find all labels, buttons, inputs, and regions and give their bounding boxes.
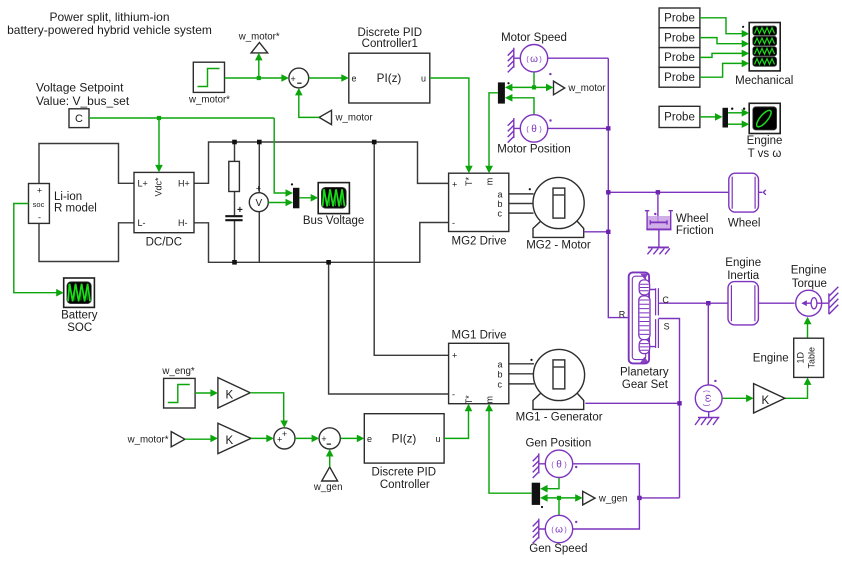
clamp motor speed (508, 48, 524, 73)
MG1 generator icon (530, 349, 584, 409)
svg-text:MG2 Drive: MG2 Drive (452, 235, 507, 247)
svg-text:m: m (485, 178, 495, 186)
PID block PI(z) Controller1 (349, 53, 430, 103)
svg-text:H-: H- (178, 218, 188, 228)
clamp gen speed (533, 519, 549, 544)
wire from-tag w_motor to sum1 (299, 95, 319, 118)
svg-text:MG1 - Generator: MG1 - Generator (516, 411, 603, 423)
wire motor mux to MG2 m (489, 93, 498, 167)
svg-text:Engine: Engine (725, 257, 761, 269)
torque source Engine Torque (796, 287, 839, 316)
svg-text:Voltage Setpoint: Voltage Setpoint (36, 80, 124, 94)
svg-text:ω: ω (702, 394, 713, 402)
junction HV+ bus / voltmeter branch (257, 140, 262, 145)
sum1 top (w_motor* - w_motor) (289, 68, 309, 88)
junction S shaft / MG1 base (677, 401, 681, 405)
svg-text:K: K (762, 395, 770, 407)
svg-text:R: R (619, 310, 626, 320)
svg-text:Value: V_bus_set: Value: V_bus_set (36, 94, 130, 108)
svg-text:K: K (226, 389, 234, 401)
junction HV+ bus / MG1 positive branch (372, 140, 377, 145)
wire planetary S down (658, 319, 679, 498)
svg-text:Controller1: Controller1 (362, 38, 418, 50)
svg-text:MG1 Drive: MG1 Drive (452, 329, 507, 341)
svg-text:SOC: SOC (67, 322, 92, 334)
probes 1-4 (659, 8, 700, 87)
svg-text:Table: Table (807, 347, 817, 369)
svg-text:-: - (452, 389, 455, 399)
wire PI2 u to MG1 T* (444, 411, 468, 439)
wire voltmeter branch (258, 142, 260, 262)
port dot demux out 2 (743, 108, 745, 110)
svg-text:Discrete PID: Discrete PID (372, 467, 437, 479)
scope Battery SOC (64, 278, 95, 307)
wire resistor-capacitor branch (234, 142, 236, 262)
svg-text:Probe: Probe (664, 112, 695, 124)
wire battery soc to scope (14, 204, 57, 293)
wire K2 to sum2 (251, 437, 268, 439)
svg-text:Battery: Battery (61, 309, 98, 321)
svg-text:b: b (498, 369, 503, 379)
svg-text:+: + (237, 205, 243, 216)
engine inertia block (728, 282, 758, 325)
svg-text:Li-ion: Li-ion (54, 191, 82, 203)
svg-text:C: C (662, 295, 669, 305)
svg-text:w_gen: w_gen (313, 482, 343, 493)
svg-text:Probe: Probe (664, 32, 695, 44)
wire 1D table to torque source (807, 324, 809, 339)
clamp motor position (508, 118, 524, 143)
svg-text:+: + (37, 186, 42, 196)
wire engine speed sensor to K3 (723, 397, 748, 399)
svg-text:+: + (277, 434, 282, 444)
planetary gear set (629, 272, 659, 363)
resistor R (229, 161, 240, 191)
port dot mechanical scope input (742, 26, 744, 28)
svg-text:-: - (38, 213, 41, 223)
constant C block (69, 109, 89, 128)
wire probe5 to demux (700, 116, 717, 118)
svg-text:w_motor: w_motor (567, 83, 606, 94)
svg-text:MG2 - Motor: MG2 - Motor (526, 240, 591, 252)
svg-text:Motor Position: Motor Position (497, 144, 571, 156)
wheel block (729, 173, 766, 212)
voltmeter V sensor (249, 184, 268, 212)
wire DC/DC H- to HV- bus (194, 223, 449, 263)
svg-text:soc: soc (33, 200, 45, 209)
wire gen speed to junction (573, 498, 640, 529)
wire motor position sensor to mux (511, 98, 534, 115)
from tag w_motor* (right point) (171, 432, 185, 447)
wire PI1 u to MG2 T* (430, 78, 469, 167)
svg-text:Vdc*: Vdc* (154, 177, 164, 197)
svg-text:+: + (282, 429, 287, 439)
sum3 (minus w_gen) (319, 428, 340, 449)
MG2 motor icon (529, 177, 585, 237)
wire step w_eng* to K1 (195, 392, 211, 394)
svg-text:C: C (75, 113, 83, 125)
wire battery bottom to DC/DC L- (39, 223, 134, 262)
wires demux to T vs w scope (728, 112, 743, 114)
svg-text:e: e (352, 73, 357, 83)
svg-text:DC/DC: DC/DC (146, 236, 182, 248)
gain K2 (w_motor) (218, 423, 251, 453)
svg-text:e: e (367, 434, 372, 444)
svg-text:): ) (564, 527, 566, 534)
junction HV+ bus / resistor branch (232, 140, 237, 145)
svg-text:w_motor*: w_motor* (127, 434, 169, 445)
PID block PI(z) Controller (364, 414, 444, 463)
wire gen position to junction (573, 464, 640, 498)
svg-text:T vs ω: T vs ω (748, 148, 782, 160)
probe 5 (659, 106, 700, 127)
wire C constant to mux and Vdc* (89, 118, 311, 203)
mux gen m (mirrored) (532, 483, 540, 505)
svg-text:Controller: Controller (380, 479, 430, 491)
svg-text:w_motor*: w_motor* (238, 31, 280, 42)
svg-text:θ: θ (556, 459, 562, 470)
svg-text:+: + (452, 179, 457, 189)
wire K3 to 1D table (785, 384, 808, 398)
wire planetary C to engine inertia (658, 302, 728, 304)
svg-text:Torque: Torque (792, 278, 827, 290)
svg-text:a: a (498, 189, 503, 199)
wire motor speed to shaft (548, 57, 609, 59)
sensor Motor Position (520, 115, 551, 142)
svg-text:w_eng*: w_eng* (161, 366, 195, 377)
svg-text:R model: R model (54, 202, 97, 214)
svg-text:+: + (321, 434, 326, 444)
wire from-tag w_motor* to K2 (185, 438, 212, 440)
sum2 (add speeds) (274, 428, 295, 449)
svg-text:+: + (256, 184, 261, 194)
from tag w_gen (up) (322, 467, 338, 481)
goto tag w_motor (right) (554, 81, 565, 95)
svg-text:Motor Speed: Motor Speed (501, 32, 567, 44)
junction HV- bus / MG1 negative branch (326, 260, 331, 265)
svg-text:S: S (664, 321, 670, 331)
svg-text:u: u (436, 434, 441, 444)
wire K1 to sum2 top (250, 393, 284, 422)
wire sum2 to sum3 (295, 437, 312, 439)
wire MG1 base to S shaft (585, 402, 679, 404)
battery Li-ion R model (29, 184, 50, 224)
wires MG1 Drive abc to generator (509, 364, 534, 384)
svg-text:): ) (539, 127, 541, 134)
sensor Gen Speed (545, 515, 577, 542)
wire sum3 to PI2 (341, 437, 358, 439)
svg-text:Wheel: Wheel (676, 213, 709, 225)
scope Bus Voltage (318, 183, 349, 214)
demux T/w (723, 108, 729, 128)
DC/DC converter block (134, 172, 194, 232)
MG1 Drive block (449, 343, 509, 404)
svg-text:+: + (452, 350, 457, 360)
svg-text:Friction: Friction (676, 225, 714, 237)
wire gen speed sensor to mux and goto (547, 498, 577, 515)
gain K3 engine (754, 384, 785, 413)
wires MG2 Drive abc to motor (509, 194, 534, 213)
wire step w_motor* to sum1 (225, 60, 283, 78)
junction shaft / motor position (606, 126, 610, 130)
goto tag w_motor* (up) (251, 43, 268, 53)
svg-text:a: a (498, 359, 503, 369)
svg-text:-: - (452, 218, 455, 228)
gain K1 (w_eng) (218, 378, 250, 408)
svg-text:PI(z): PI(z) (392, 432, 417, 445)
svg-text:w_motor*: w_motor* (188, 94, 230, 105)
wire gen mux to MG1 m (489, 411, 532, 494)
sensor Motor Speed (520, 45, 551, 76)
junction shaft / wheel line (606, 190, 610, 194)
svg-text:1D: 1D (796, 352, 806, 364)
svg-text:Probe: Probe (664, 52, 695, 64)
svg-text:Engine: Engine (753, 352, 789, 364)
clamp gen position (533, 453, 549, 478)
svg-text:+: + (291, 74, 296, 84)
svg-text:b: b (498, 199, 503, 209)
svg-text:V: V (255, 198, 262, 209)
svg-text:Probe: Probe (664, 13, 695, 25)
junction gen sensors tee (637, 496, 641, 500)
step w_eng* (164, 378, 196, 408)
sensor Gen Position (545, 450, 577, 477)
svg-text:c: c (498, 209, 503, 219)
svg-text:Gear Set: Gear Set (622, 379, 669, 391)
mux bus voltage (293, 188, 299, 209)
wheel friction icon (645, 192, 673, 254)
wire C junction down to engine speed source (707, 303, 709, 385)
junction wheel line / friction (656, 190, 660, 194)
junction HV- bus / capacitor branch (232, 260, 237, 265)
junction shaft / MG2 motor base (606, 230, 610, 234)
svg-text:L-: L- (138, 218, 146, 228)
capacitor C (225, 216, 242, 220)
svg-text:battery-powered hybrid vehicle: battery-powered hybrid vehicle system (7, 23, 212, 37)
svg-text:Inertia: Inertia (727, 270, 760, 282)
wire w_gen from-tag to sum3 (329, 456, 331, 467)
svg-text:θ: θ (531, 124, 537, 135)
svg-text:Mechanical: Mechanical (735, 75, 793, 87)
svg-text:Planetary: Planetary (620, 366, 669, 378)
svg-text:w_gen: w_gen (598, 493, 628, 504)
svg-text:ω: ω (530, 54, 538, 65)
svg-text:): ) (703, 404, 710, 406)
svg-text:): ) (564, 462, 566, 469)
scope Engine T vs w (749, 103, 780, 133)
svg-text:L+: L+ (138, 179, 148, 189)
wire inertia to torque source (758, 302, 794, 304)
svg-text:m: m (485, 396, 495, 404)
svg-text:Gen Speed: Gen Speed (529, 543, 587, 555)
wire shaft to wheel (608, 191, 729, 193)
svg-text:PI(z): PI(z) (377, 72, 402, 85)
svg-text:): ) (539, 56, 541, 63)
wire motor base to shaft (584, 231, 609, 233)
svg-text:Power split, lithium-ion: Power split, lithium-ion (49, 10, 169, 24)
svg-text:Engine: Engine (747, 135, 783, 147)
wire gen position sensor to mux (547, 478, 560, 489)
svg-text:w_motor: w_motor (335, 113, 374, 124)
svg-text:Gen Position: Gen Position (525, 437, 591, 449)
wire motor position to shaft (548, 127, 609, 129)
wire DC/DC H+ to HV+ bus (194, 142, 449, 183)
goto tag w_gen (right) (583, 491, 595, 505)
scope Mechanical (749, 23, 780, 71)
svg-text:T*: T* (464, 177, 474, 186)
wire sum1 to PI1 (309, 77, 342, 79)
wire HV- to MG1 Drive - (329, 262, 449, 394)
1D table block (794, 338, 824, 377)
wire motor speed sensor to mux and goto (511, 72, 548, 88)
wire gen sensors junction (639, 497, 679, 499)
svg-text:ω: ω (555, 525, 563, 536)
port dot demux out 1 (731, 108, 733, 110)
mux motor m (mirrored) (498, 82, 505, 103)
svg-text:c: c (498, 379, 503, 389)
svg-text:Probe: Probe (664, 72, 695, 84)
MG2 Drive block (449, 173, 509, 231)
engine speed source (695, 380, 722, 425)
wire main shaft vertical (608, 58, 628, 317)
wire HV+ to MG1 Drive + (374, 142, 448, 355)
svg-text:u: u (421, 73, 426, 83)
svg-text:T*: T* (464, 395, 474, 404)
junction engine shaft (706, 301, 710, 305)
wires probes to Mechanical scope (700, 18, 743, 34)
svg-text:Bus Voltage: Bus Voltage (303, 215, 364, 227)
step w_motor* (193, 62, 224, 92)
from tag w_motor (left) (319, 110, 331, 124)
wire battery top to DC/DC L+ (39, 144, 134, 184)
svg-text:Engine: Engine (791, 265, 827, 277)
svg-text:K: K (226, 435, 234, 447)
svg-text:H+: H+ (178, 179, 190, 189)
svg-text:Wheel: Wheel (728, 218, 761, 230)
